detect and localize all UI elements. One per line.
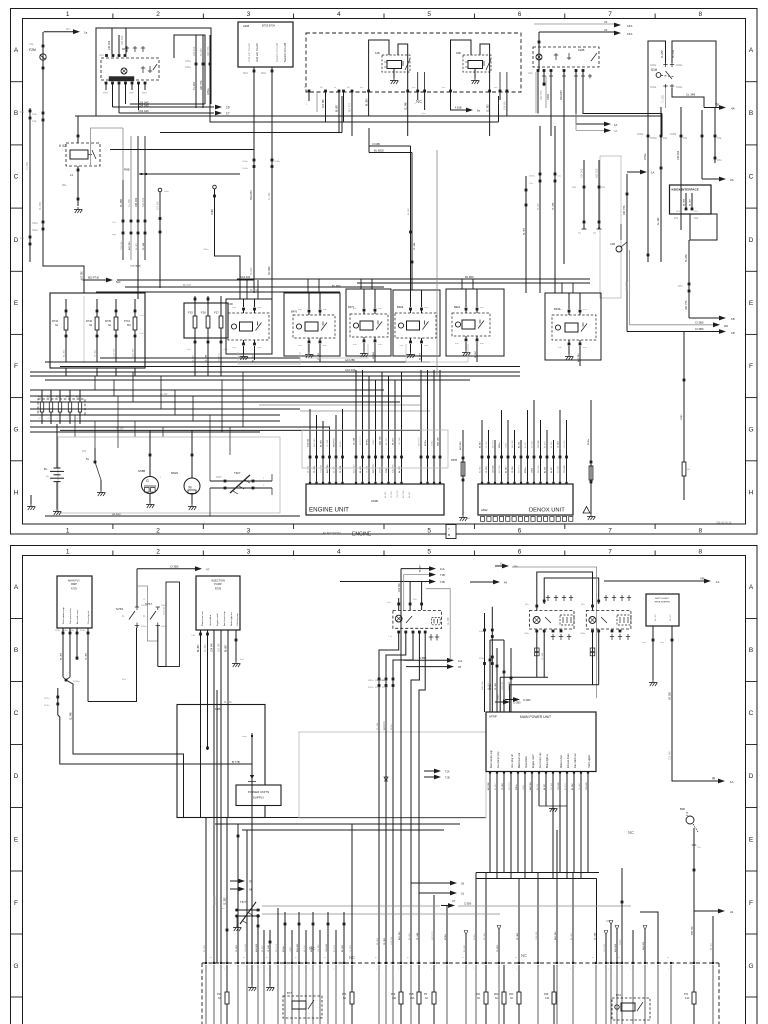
svg-text:BL 3B0: BL 3B0 [465, 275, 474, 279]
svg-text:5: 5 [427, 528, 431, 535]
relay K2B coil [468, 61, 483, 69]
component T607 body [230, 475, 250, 493]
svg-text:B06: B06 [680, 807, 685, 811]
svg-text:K0a: K0a [683, 137, 688, 140]
svg-text:S29B: S29B [578, 48, 585, 52]
battery ground [56, 482, 58, 509]
svg-text:BL 607: BL 607 [525, 441, 527, 448]
bus wire G row 2 [30, 375, 520, 377]
svg-text:C0B2: C0B2 [547, 93, 550, 100]
svg-text:KPa: KPa [678, 285, 683, 288]
svg-text:Cl 3B0: Cl 3B0 [513, 702, 521, 705]
wire staircase below left module 5 [419, 632, 425, 963]
svg-text:mm: mm [258, 347, 262, 349]
svg-text:2A9B: 2A9B [371, 499, 378, 503]
collector bus below MPU 1 [476, 872, 599, 874]
relay B475 coil [565, 323, 578, 332]
component T607 leads right [255, 480, 272, 482]
svg-text:KPMa: KPMa [382, 687, 388, 689]
left feed wire two [484, 613, 486, 712]
svg-text:8: 8 [698, 11, 702, 18]
svg-text:BL 3B0: BL 3B0 [198, 644, 200, 652]
svg-text:C0B2: C0B2 [506, 442, 508, 448]
svg-text:E: E [749, 300, 754, 307]
svg-text:CL 34B: CL 34B [268, 945, 270, 952]
left module upper terminals [397, 603, 400, 606]
svg-text:2A: 2A [730, 178, 734, 182]
wire below S767 [157, 626, 159, 667]
svg-text:c: c [630, 969, 631, 971]
relay K2B terminals on enclosure edge [449, 90, 452, 93]
svg-text:C04 040: C04 040 [212, 643, 214, 652]
svg-text:BL 6B7: BL 6B7 [262, 944, 264, 952]
svg-text:3: 3 [247, 549, 251, 556]
far right vertical [712, 916, 714, 963]
wire drops to denox unit pins [481, 420, 483, 482]
svg-text:C03 040: C03 040 [558, 782, 560, 790]
svg-text:CL 34B: CL 34B [512, 466, 514, 473]
relay K02 dashed enclosure [66, 143, 100, 166]
svg-text:A03 3B0: A03 3B0 [614, 943, 617, 952]
svg-text:4A: 4A [731, 107, 735, 111]
svg-text:CL 34B: CL 34B [377, 722, 379, 730]
svg-text:F: F [749, 363, 753, 370]
svg-text:Cl 3B0: Cl 3B0 [523, 699, 531, 702]
fuse F4 [68, 402, 71, 412]
svg-text:G: G [13, 426, 18, 433]
svg-text:F: F [14, 900, 18, 907]
svg-text:C: C [14, 710, 19, 717]
motor M520 ground [191, 494, 193, 504]
svg-text:Cab tilt pump: Cab tilt pump [236, 612, 239, 626]
svg-text:D: D [749, 237, 754, 244]
connector wire column right 1 [626, 174, 628, 332]
svg-text:C04 040: C04 040 [397, 490, 399, 498]
bottom resistors [226, 965, 228, 992]
wire arrows E row right [689, 317, 724, 319]
svg-text:CL 34B: CL 34B [542, 652, 544, 660]
svg-text:A03 3B0: A03 3B0 [121, 35, 124, 45]
svg-text:Tacho signal: Tacho signal [589, 755, 591, 768]
relay B474 contact [478, 321, 484, 329]
svg-text:A03 3B0: A03 3B0 [487, 781, 490, 790]
svg-text:c: c [249, 969, 250, 971]
svg-text:B474: B474 [454, 305, 461, 309]
svg-text:10Ma: 10Ma [203, 249, 209, 251]
connector wire column right 4 [680, 107, 682, 230]
relay K18 terminals [242, 308, 245, 311]
svg-text:A03 3B0: A03 3B0 [142, 197, 145, 207]
legend box A308 [238, 22, 293, 67]
svg-text:Brake light sw: Brake light sw [546, 753, 549, 768]
svg-text:Cl 3B0: Cl 3B0 [464, 903, 472, 906]
svg-text:R07 P73: R07 P73 [219, 353, 221, 362]
connector pair C04 on left wire [42, 221, 45, 224]
svg-text:6: 6 [518, 528, 522, 535]
vertical x622 [621, 868, 623, 963]
arrow U mid B row [470, 581, 497, 583]
svg-text:K0Ma: K0Ma [650, 64, 657, 67]
svg-text:c: c [289, 969, 290, 971]
svg-text:W: W [712, 777, 715, 781]
svg-text:B7A: B7A [616, 993, 621, 997]
relay K01 label bar [109, 77, 134, 82]
svg-text:B: B [14, 647, 18, 654]
svg-text:mm: mm [353, 344, 357, 346]
relay B473 upper leads [410, 290, 412, 307]
relay K18 coil [240, 322, 253, 331]
svg-text:KPFa: KPFa [44, 698, 50, 700]
svg-text:Switch Om AB: Switch Om AB [283, 43, 287, 62]
svg-text:F: F [749, 900, 753, 907]
svg-text:BL 6B7: BL 6B7 [419, 564, 421, 572]
relay module B475 enclosure [545, 293, 601, 360]
gray wires below relay S29B [535, 72, 537, 113]
svg-text:U: U [500, 562, 502, 566]
wire run E row top relay feed [237, 278, 590, 280]
svg-text:mm: mm [480, 307, 484, 309]
svg-text:BL 3B0: BL 3B0 [484, 932, 486, 940]
relay K18 ground [243, 346, 245, 354]
svg-text:AL 302: AL 302 [398, 465, 401, 473]
svg-text:A03 3B0: A03 3B0 [322, 98, 325, 108]
resistor box E row left [50, 293, 145, 368]
svg-text:BL 6B7: BL 6B7 [571, 932, 573, 940]
svg-text:KBOX INTERFACE: KBOX INTERFACE [672, 188, 699, 192]
svg-text:SG 3B0: SG 3B0 [558, 465, 560, 473]
svg-text:BL 607: BL 607 [670, 613, 672, 621]
svg-text:mm: mm [378, 308, 382, 310]
svg-text:BL 3B0: BL 3B0 [464, 944, 466, 952]
svg-text:mm: mm [323, 309, 327, 311]
wire bend x658 [640, 912, 658, 963]
relay B473 dashed box [395, 313, 436, 338]
svg-text:E: E [749, 837, 754, 844]
ground far bottom-left [30, 495, 32, 504]
svg-text:AL 302: AL 302 [710, 942, 713, 950]
svg-text:CL 3B2: CL 3B2 [26, 161, 29, 170]
svg-text:KPMa: KPMa [368, 687, 374, 689]
feeder pair into module B473 [410, 146, 412, 290]
svg-text:mm: mm [480, 343, 484, 345]
svg-text:NC: NC [416, 99, 422, 104]
svg-text:AL 302: AL 302 [303, 945, 306, 952]
svg-text:PA2: PA2 [494, 993, 499, 996]
svg-text:KPMa: KPMa [425, 439, 427, 446]
svg-text:A1B: A1B [610, 242, 615, 246]
gray loop wires under relay row [308, 344, 368, 358]
gray enclosure bottom-left motors [58, 437, 280, 513]
svg-text:c: c [668, 969, 669, 971]
wire run C row [110, 149, 254, 151]
svg-text:DENOX UNIT: DENOX UNIT [529, 508, 565, 514]
svg-text:1B: 1B [731, 317, 735, 321]
svg-text:R0B: R0B [124, 168, 130, 172]
svg-text:KPMa: KPMa [380, 466, 382, 473]
svg-text:Engine cutoff: Engine cutoff [216, 613, 219, 626]
svg-text:MAIN FLY: MAIN FLY [68, 579, 80, 583]
relay K02 contact [92, 150, 96, 159]
svg-text:BA3 2B0: BA3 2B0 [529, 781, 532, 790]
wire stubs into relay cluster [111, 28, 113, 54]
svg-text:C03 040: C03 040 [670, 751, 672, 760]
svg-text:BL 6B7: BL 6B7 [321, 439, 323, 447]
svg-text:R07 P73: R07 P73 [493, 439, 495, 448]
wire arrow right F row [694, 910, 722, 912]
svg-text:c: c [203, 969, 204, 971]
svg-text:BL 3B0: BL 3B0 [308, 465, 310, 473]
switch S766 [135, 606, 139, 608]
title block sheet number [446, 525, 456, 539]
svg-text:mm: mm [298, 345, 302, 347]
svg-text:10a: 10a [601, 186, 606, 189]
relay K2B contact [486, 59, 491, 70]
svg-text:K0a: K0a [674, 217, 679, 220]
delta symbol [583, 507, 590, 514]
wires below box A72V [62, 632, 65, 635]
connector pair lower on second left wire [29, 236, 32, 239]
svg-text:mm: mm [425, 345, 429, 347]
gray loop right of left module [426, 589, 450, 660]
relay module B473 enclosure [393, 290, 440, 356]
svg-text:A03 3B0: A03 3B0 [459, 441, 462, 450]
relay K01 coil circle [121, 68, 127, 74]
relay K18 upper leads [243, 299, 245, 307]
relay module B472 enclosure [346, 289, 391, 356]
svg-text:BL 6B7: BL 6B7 [226, 644, 228, 652]
svg-text:KBMa: KBMa [368, 680, 374, 682]
svg-text:BA3 2B0: BA3 2B0 [642, 941, 645, 950]
svg-text:17: 17 [226, 112, 230, 116]
wire loop linking relay pair outer [537, 572, 593, 611]
relay S29B contacts [555, 53, 557, 60]
svg-text:AL 302: AL 302 [536, 783, 539, 790]
svg-text:Exhaust brake: Exhaust brake [567, 753, 570, 768]
svg-text:c: c [570, 969, 571, 971]
svg-text:PA3: PA3 [509, 993, 514, 996]
svg-text:1-0a: 1-0a [421, 113, 426, 115]
svg-text:Cl 3B0: Cl 3B0 [419, 657, 427, 660]
component B06 right column [686, 816, 694, 824]
diode on wire 386 [384, 777, 388, 781]
svg-text:P20: P20 [544, 993, 549, 996]
svg-text:CL 3B2: CL 3B2 [487, 104, 489, 112]
motor G58B lead [149, 430, 151, 477]
svg-text:C0B2: C0B2 [620, 939, 622, 945]
relay B475 terminals [568, 310, 571, 313]
svg-text:BL P33: BL P33 [672, 50, 675, 58]
svg-text:BA3 2B0: BA3 2B0 [691, 926, 694, 935]
svg-text:KPMa: KPMa [650, 137, 657, 140]
svg-text:C03 040: C03 040 [564, 465, 566, 473]
svg-text:6mll: 6mll [466, 518, 471, 520]
svg-text:7: 7 [608, 11, 612, 18]
svg-text:F2M: F2M [29, 48, 36, 52]
svg-text:c: c [398, 969, 399, 971]
svg-text:T1B: T1B [440, 580, 445, 584]
svg-text:mm: mm [298, 309, 302, 311]
svg-text:mm: mm [442, 87, 446, 89]
relay B474 lower lead [476, 342, 478, 362]
svg-text:BA3 2B0: BA3 2B0 [481, 681, 484, 690]
relay B472 dashed box [350, 314, 388, 337]
svg-text:CL 3B2: CL 3B2 [236, 944, 238, 952]
gray connector block above engine unit [302, 430, 448, 468]
switch S1H [656, 73, 661, 78]
ENGINE UNIT box [306, 484, 444, 515]
svg-text:BA3 2B0: BA3 2B0 [379, 436, 382, 445]
relay K2B loop wires [451, 40, 472, 91]
wires below relay K01 [105, 84, 107, 90]
svg-text:3: 3 [247, 528, 251, 535]
wire drops to engine unit pins group2 [355, 370, 357, 482]
svg-text:AL 302: AL 302 [385, 437, 388, 445]
vertical wire x434 [433, 895, 435, 963]
resistor R355 ground [462, 515, 464, 518]
denox unit pins [481, 482, 483, 484]
KBOX lower box [690, 214, 717, 240]
svg-text:BL 3B0: BL 3B0 [64, 349, 66, 357]
svg-text:M0A: M0A [243, 72, 248, 75]
svg-text:BL 6B7: BL 6B7 [409, 932, 411, 940]
svg-text:BL 3B0: BL 3B0 [120, 199, 123, 207]
svg-text:3A: 3A [55, 324, 58, 327]
svg-text:1: 1 [66, 11, 70, 18]
svg-text:BL 607: BL 607 [393, 437, 395, 445]
wire U link below A72V [88, 628, 137, 702]
component B7A cluster bottom-right [612, 998, 650, 1020]
svg-text:F16: F16 [201, 311, 206, 315]
svg-text:Switch Om AB: Switch Om AB [275, 43, 279, 62]
svg-text:C04 040: C04 040 [245, 943, 247, 952]
relay B472 ground [363, 343, 365, 351]
svg-text:C04 040: C04 040 [321, 464, 323, 473]
svg-text:7: 7 [608, 549, 612, 556]
svg-text:mm: mm [494, 87, 498, 89]
svg-text:8: 8 [698, 549, 702, 556]
extra drops from busses to gray box [74, 415, 76, 437]
wire band below relay row 3 [60, 366, 520, 368]
component B77 cluster bottom-left [283, 996, 322, 1018]
relay B475 dashed box [552, 315, 596, 340]
svg-text:CL 34B: CL 34B [71, 712, 73, 720]
wire staircase below left module 3 [393, 632, 413, 963]
svg-text:A03 3B0: A03 3B0 [128, 241, 131, 250]
relay module page2 mid [529, 611, 574, 630]
svg-text:1B: 1B [731, 331, 735, 335]
svg-text:mm: mm [558, 347, 562, 349]
resistor R734 [64, 317, 68, 330]
svg-text:A03 3B0: A03 3B0 [132, 348, 135, 357]
svg-text:c: c [333, 969, 334, 971]
svg-text:15A: 15A [627, 32, 632, 36]
wire run to arrow VB [704, 107, 724, 109]
collector run below relay mid [500, 676, 548, 678]
svg-text:KPBa: KPBa [55, 630, 61, 632]
svg-text:c: c [267, 969, 268, 971]
svg-text:Cl 3B0: Cl 3B0 [695, 327, 704, 331]
resistor R736 [95, 317, 99, 330]
svg-text:C0B2: C0B2 [532, 467, 534, 473]
svg-text:C04 040: C04 040 [138, 109, 149, 113]
svg-text:2: 2 [156, 11, 160, 18]
svg-text:A308: A308 [243, 24, 250, 28]
relay K18 contact [256, 323, 262, 331]
connector wire column right 3 [660, 107, 662, 262]
denox lower connector row [481, 517, 485, 522]
svg-text:mml: mml [129, 92, 134, 95]
svg-text:KPMa: KPMa [283, 945, 285, 952]
wire loop rectangle [166, 582, 180, 667]
svg-text:K18: K18 [228, 302, 233, 306]
svg-text:Glow plug ctrl: Glow plug ctrl [87, 610, 90, 624]
svg-text:1A: 1A [716, 580, 720, 584]
relay pair terminal glyphs mid [547, 595, 549, 601]
svg-text:A: A [749, 584, 754, 591]
wire below KBOX [688, 240, 690, 318]
wire x684 with resistor [683, 332, 685, 463]
connector pair on second left wire [29, 110, 32, 113]
connector columns D row center [539, 126, 541, 293]
box top-right page2 [646, 594, 679, 626]
svg-text:CL 3B2: CL 3B2 [662, 94, 665, 103]
svg-text:+Vm: +Vm [186, 349, 191, 351]
wires below relay mid to collector [536, 631, 538, 677]
svg-text:A03 3B0: A03 3B0 [498, 464, 501, 473]
svg-text:CL 34B: CL 34B [354, 437, 356, 445]
arrow pair right C row [576, 123, 608, 125]
svg-text:V0A: V0A [513, 565, 518, 569]
svg-text:FUNCTION: FUNCTION [323, 532, 341, 536]
relay K18 lower lead [254, 346, 256, 360]
svg-text:KPMa: KPMa [340, 440, 342, 447]
svg-text:R07 P73: R07 P73 [360, 436, 362, 445]
relay B476 lower lead [319, 344, 321, 362]
svg-text:CL 34B: CL 34B [686, 93, 695, 97]
connector wire column right 5 [701, 110, 703, 179]
svg-text:K0a: K0a [694, 217, 699, 220]
svg-text:P733: P733 [124, 320, 130, 323]
relay B473 contact [423, 322, 429, 330]
svg-text:H1: H1 [730, 910, 734, 914]
svg-text:R07 P73: R07 P73 [384, 721, 386, 730]
arrow U7 with gray run F row [441, 905, 452, 907]
arrow single zone6 [495, 565, 507, 567]
relay K18 pickup circle [231, 324, 236, 329]
relay B473 lower lead [421, 344, 423, 362]
svg-text:KPMa: KPMa [644, 153, 647, 160]
svg-text:Cl 34B: Cl 34B [372, 142, 380, 146]
svg-text:Bm: Bm [46, 476, 49, 478]
svg-text:Fuel pump relay: Fuel pump relay [497, 751, 500, 768]
svg-text:A03 3B0: A03 3B0 [398, 931, 401, 940]
svg-text:mm: mm [583, 309, 587, 311]
svg-text:G: G [146, 479, 149, 483]
svg-text:AL 302: AL 302 [654, 613, 657, 621]
bus wire G row 7 [30, 408, 300, 410]
glyph row below left module [430, 634, 432, 641]
relay module B476 enclosure [284, 293, 340, 356]
svg-text:mm: mm [233, 347, 237, 349]
svg-text:3A: 3A [343, 997, 346, 1000]
svg-text:BL P33: BL P33 [334, 944, 336, 952]
svg-text:B: B [14, 110, 18, 117]
svg-text:BL 3B0: BL 3B0 [373, 351, 375, 359]
svg-text:E: E [14, 837, 19, 844]
svg-text:Aux heater sup: Aux heater sup [539, 752, 542, 768]
component T677 ground [236, 916, 238, 925]
resistor R355 wire [462, 430, 464, 515]
